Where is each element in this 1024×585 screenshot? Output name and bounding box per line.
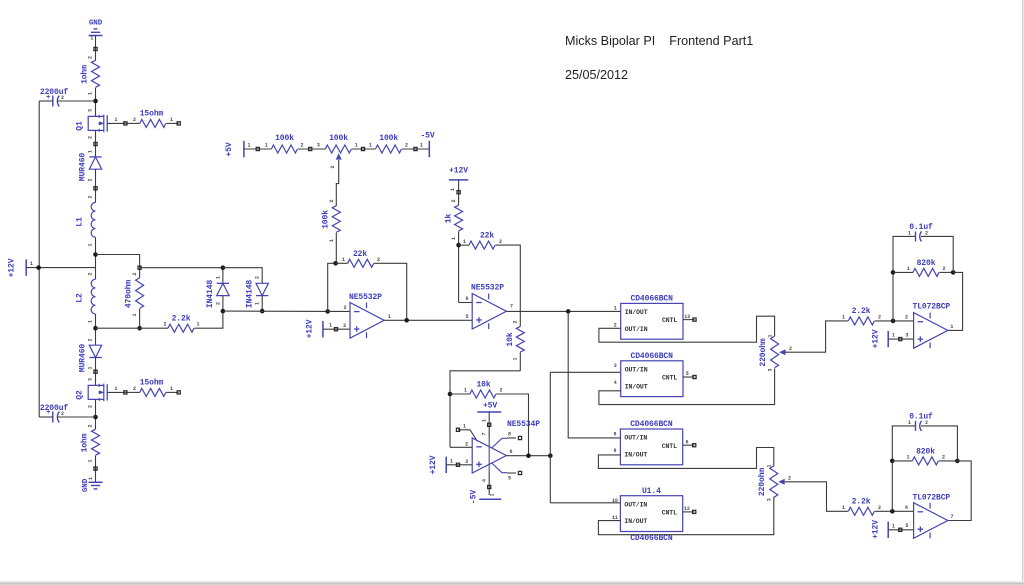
inductor L1 bbox=[91, 202, 95, 237]
wire bus to switch3 pin9 bbox=[568, 311, 620, 438]
ground GND top bbox=[89, 29, 103, 36]
svg-text:1: 1 bbox=[30, 261, 33, 267]
wire +12V to rail and L node bbox=[26, 267, 95, 269]
svg-text:2: 2 bbox=[88, 195, 94, 198]
svg-text:2: 2 bbox=[329, 199, 335, 202]
svg-text:1: 1 bbox=[767, 464, 773, 467]
svg-text:2: 2 bbox=[451, 199, 457, 202]
svg-text:22k: 22k bbox=[353, 250, 367, 259]
diode MUR460 (bottom) bbox=[89, 345, 101, 357]
svg-text:1: 1 bbox=[329, 239, 335, 242]
svg-text:Micks Bipolar PI Frontend P: Micks Bipolar PI Frontend Part1 bbox=[565, 34, 753, 48]
wire MUR460-2 to Q2 bbox=[95, 358, 97, 386]
junction 820k right bbox=[951, 270, 956, 275]
resistor 22k (opamp1 feedback) bbox=[348, 259, 374, 267]
svg-text:1: 1 bbox=[463, 239, 466, 245]
svg-text:2: 2 bbox=[133, 386, 136, 392]
svg-text:2: 2 bbox=[377, 257, 380, 263]
svg-text:2: 2 bbox=[905, 315, 908, 321]
svg-text:NE5534P: NE5534P bbox=[507, 420, 540, 429]
svg-text:1: 1 bbox=[215, 276, 221, 279]
svg-text:5: 5 bbox=[466, 314, 469, 320]
svg-text:CNTL: CNTL bbox=[662, 317, 677, 324]
svg-text:3: 3 bbox=[88, 109, 94, 112]
svg-text:5: 5 bbox=[905, 523, 908, 529]
wire feedback left vertical upper bbox=[893, 236, 916, 321]
svg-text:25/05/2012: 25/05/2012 bbox=[565, 68, 628, 82]
svg-text:-5V: -5V bbox=[470, 490, 479, 504]
svg-text:12: 12 bbox=[684, 506, 690, 512]
svg-text:7: 7 bbox=[510, 304, 513, 310]
svg-text:CNTL: CNTL bbox=[662, 375, 677, 382]
svg-text:7: 7 bbox=[951, 514, 954, 520]
wire IN4148-1 bottom lead bbox=[222, 296, 224, 312]
+12V supply (opamp2 1k) bbox=[449, 180, 468, 184]
wire 100k to 22k node bbox=[335, 233, 337, 264]
svg-text:2.2k: 2.2k bbox=[852, 307, 871, 316]
wire 2.2k to diode node bbox=[194, 311, 223, 328]
wire node to 470ohm top bbox=[96, 255, 140, 268]
svg-text:1: 1 bbox=[170, 386, 173, 392]
junction diode1 bottom bbox=[221, 309, 226, 314]
svg-text:5: 5 bbox=[686, 371, 689, 377]
svg-text:1: 1 bbox=[132, 313, 138, 316]
wire 10k-h right to output bbox=[496, 394, 528, 456]
svg-text:GND: GND bbox=[89, 19, 103, 27]
svg-text:4: 4 bbox=[482, 479, 488, 482]
svg-text:3: 3 bbox=[767, 368, 773, 371]
svg-text:6: 6 bbox=[685, 439, 688, 445]
resistor 100k (top right) bbox=[376, 145, 402, 153]
resistor 1ohm (bottom) bbox=[92, 429, 100, 455]
svg-text:CD4066BCN: CD4066BCN bbox=[631, 352, 674, 361]
svg-text:1: 1 bbox=[88, 320, 94, 323]
op-amp TL072BCP (upper) bbox=[914, 313, 948, 349]
svg-text:TL072BCP: TL072BCP bbox=[913, 494, 951, 503]
svg-text:6: 6 bbox=[510, 449, 513, 455]
analog switch U1.4 CD4066BCN bbox=[612, 487, 696, 543]
svg-text:+12V: +12V bbox=[872, 329, 881, 348]
wire opamp2 output to switch1 bbox=[506, 310, 620, 312]
wire switch2 in to pot1 bottom bbox=[599, 368, 775, 404]
svg-text:IN4148: IN4148 bbox=[245, 280, 254, 309]
svg-text:1: 1 bbox=[265, 143, 268, 149]
svg-text:2: 2 bbox=[330, 165, 336, 168]
wire to IN4148-2 top bbox=[223, 268, 262, 284]
wire feedback to output bbox=[948, 272, 963, 330]
+5V supply (top row) bbox=[243, 141, 245, 157]
pad on GND wire bbox=[94, 47, 97, 50]
wire L2 to lower node bbox=[95, 314, 97, 337]
svg-text:3: 3 bbox=[614, 363, 617, 369]
svg-text:OUT/IN: OUT/IN bbox=[625, 367, 648, 374]
wire 820k right lead bbox=[939, 271, 953, 273]
resistor 10k (vertical) bbox=[516, 326, 524, 352]
diode MUR460 (top) bbox=[89, 156, 101, 158]
pad Q1 source bbox=[94, 142, 97, 145]
wire cap1 right lead bbox=[58, 100, 96, 102]
pad top row 4 bbox=[414, 147, 417, 150]
svg-text:3: 3 bbox=[317, 143, 320, 149]
transistor Q2 MOSFET bbox=[88, 384, 107, 402]
svg-text:1: 1 bbox=[197, 322, 200, 328]
svg-text:2200uf: 2200uf bbox=[40, 404, 69, 413]
wire 100k-3 to -5V bbox=[402, 148, 429, 150]
op-amp NE5532P (second) bbox=[472, 293, 506, 329]
junction 10k-horizontal left bbox=[448, 392, 453, 397]
svg-text:3: 3 bbox=[88, 378, 94, 381]
wire +12V to TL072-2 plus bbox=[888, 529, 913, 531]
wire 820k left lead bbox=[893, 271, 913, 273]
wire switch1 out to pot1 top bbox=[599, 316, 775, 342]
svg-text:470ohm: 470ohm bbox=[125, 280, 134, 309]
junction 5534 out / 10k bbox=[526, 453, 531, 458]
svg-text:0.1uf: 0.1uf bbox=[909, 413, 933, 422]
svg-text:1: 1 bbox=[90, 36, 93, 42]
wire 820k-2 left lead bbox=[892, 460, 912, 462]
svg-text:1: 1 bbox=[88, 92, 94, 95]
wire pot wiper down bbox=[336, 160, 338, 206]
svg-text:+5V: +5V bbox=[225, 142, 234, 156]
wire to opamp2 plus input bbox=[463, 319, 473, 321]
wire 2.2k to TL072 minus bbox=[875, 320, 914, 322]
svg-text:L1: L1 bbox=[76, 217, 85, 227]
svg-text:IN/OUT: IN/OUT bbox=[624, 518, 647, 525]
svg-text:IN/OUT: IN/OUT bbox=[624, 452, 647, 459]
svg-text:1: 1 bbox=[355, 143, 358, 149]
svg-text:2: 2 bbox=[301, 143, 304, 149]
wire 2.2k to TL072-2 minus bbox=[875, 510, 914, 512]
junction 1k/22k bbox=[456, 243, 461, 248]
wire 22k right to output bbox=[374, 263, 407, 320]
svg-text:6: 6 bbox=[905, 505, 908, 511]
wire 10k to NE5534 minus bbox=[450, 371, 520, 448]
svg-text:2: 2 bbox=[788, 475, 791, 481]
potentiometer 220ohm (upper) bbox=[771, 336, 779, 368]
pad top row 1 bbox=[256, 147, 259, 150]
svg-text:2: 2 bbox=[61, 411, 64, 417]
window right border bbox=[1022, 0, 1024, 582]
svg-text:Q2: Q2 bbox=[76, 390, 85, 400]
wire +12V net to diodes bbox=[140, 267, 223, 269]
pot2 wiper arrow bbox=[778, 479, 784, 485]
svg-text:1: 1 bbox=[513, 357, 519, 360]
svg-text:2200uf: 2200uf bbox=[40, 88, 69, 97]
junction 470ohm bottom bbox=[137, 326, 142, 331]
wire +5V to 100k-1 bbox=[244, 148, 272, 150]
+12V bar TL072 upper bbox=[887, 331, 889, 347]
svg-text:2: 2 bbox=[133, 117, 136, 123]
svg-text:9: 9 bbox=[613, 431, 616, 437]
svg-text:IN/OUT: IN/OUT bbox=[625, 383, 648, 390]
wire pin4 to -5V bbox=[488, 473, 490, 495]
wire L1 to L2 through node bbox=[95, 237, 97, 279]
svg-text:820k: 820k bbox=[916, 447, 935, 456]
svg-text:2: 2 bbox=[344, 305, 347, 311]
wire +12V to 1k bbox=[458, 184, 460, 205]
svg-text:3: 3 bbox=[343, 323, 346, 329]
svg-text:7: 7 bbox=[482, 432, 488, 435]
wire 1ohm to GND bottom bbox=[95, 456, 97, 483]
svg-text:CNTL: CNTL bbox=[662, 443, 677, 450]
svg-text:220ohm: 220ohm bbox=[758, 468, 767, 497]
analog switch U1.2 CD4066BCN bbox=[614, 352, 696, 397]
wire IN4148-2 bottom lead bbox=[261, 296, 263, 312]
svg-text:+12V: +12V bbox=[8, 258, 17, 277]
wire cap to 820k right bbox=[921, 236, 953, 272]
svg-text:2: 2 bbox=[789, 346, 792, 352]
svg-text:1: 1 bbox=[88, 366, 94, 369]
wire +5V to pin7 bbox=[488, 416, 490, 438]
wire node to 2.2k bbox=[96, 327, 169, 329]
pad NE5534 pin3 bbox=[456, 463, 459, 466]
wire Q1 source to MUR460 bbox=[95, 130, 97, 157]
svg-text:2: 2 bbox=[942, 455, 945, 461]
svg-text:1: 1 bbox=[248, 143, 251, 149]
resistor 15ohm (bottom) bbox=[140, 388, 166, 396]
wire to 5534 minus bbox=[450, 446, 472, 448]
svg-text:2: 2 bbox=[88, 405, 94, 408]
svg-text:2: 2 bbox=[614, 323, 617, 329]
svg-text:NE5532P: NE5532P bbox=[471, 284, 504, 293]
svg-text:+12V: +12V bbox=[429, 455, 438, 474]
svg-text:1: 1 bbox=[842, 315, 845, 321]
diode IN4148 (left) bbox=[217, 282, 229, 284]
resistor 2.2k (lower right) bbox=[848, 507, 874, 515]
junction diode1 top bbox=[221, 265, 226, 270]
svg-text:2: 2 bbox=[88, 56, 94, 59]
wire 470ohm top lead bbox=[139, 268, 141, 278]
wire 22k left lead bbox=[336, 262, 348, 264]
pad on GND2 wire bbox=[94, 467, 97, 470]
svg-text:2: 2 bbox=[88, 338, 94, 341]
pad MUR460/L1 bbox=[94, 187, 97, 190]
wire diode net to opamp1 bbox=[223, 310, 328, 312]
junction 820k-2 left bbox=[890, 459, 895, 464]
+12V supply (opamp1) bbox=[322, 321, 324, 337]
svg-text:1: 1 bbox=[88, 477, 94, 480]
svg-text:1: 1 bbox=[170, 117, 173, 123]
svg-text:1: 1 bbox=[88, 459, 94, 462]
svg-text:1: 1 bbox=[614, 306, 617, 312]
svg-text:NE5532P: NE5532P bbox=[349, 293, 382, 302]
svg-text:4: 4 bbox=[614, 380, 617, 386]
svg-text:2: 2 bbox=[61, 95, 64, 101]
svg-text:2: 2 bbox=[215, 302, 221, 305]
resistor 100k (vertical) bbox=[332, 206, 340, 233]
resistor 470ohm bbox=[136, 278, 144, 309]
svg-text:2: 2 bbox=[499, 239, 502, 245]
svg-text:1: 1 bbox=[369, 143, 372, 149]
junction L1/L2 node bbox=[93, 252, 98, 257]
svg-text:2: 2 bbox=[500, 388, 503, 394]
wire switch3 in to pot2 top bbox=[598, 448, 773, 469]
resistor 2.2k (left) bbox=[168, 324, 194, 332]
svg-text:+5V: +5V bbox=[483, 402, 497, 411]
pad MUR460-2/Q2 bbox=[94, 370, 97, 373]
pad NE5534 pin4 bbox=[488, 485, 491, 488]
wire to 15ohm bottom bbox=[125, 391, 139, 393]
window bottom border bbox=[0, 581, 1024, 585]
svg-text:1: 1 bbox=[907, 266, 910, 272]
svg-text:1: 1 bbox=[950, 324, 953, 330]
wire pot2 wiper to 2.2k lower bbox=[785, 482, 848, 512]
wire pot1 wiper to 2.2k bbox=[786, 321, 849, 352]
wire Q2 gate lead bbox=[107, 391, 125, 393]
wire cap2 left lead bbox=[39, 416, 53, 418]
svg-text:IN/OUT: IN/OUT bbox=[625, 309, 648, 316]
svg-text:100k: 100k bbox=[379, 134, 398, 143]
svg-text:1: 1 bbox=[420, 143, 423, 149]
svg-text:1: 1 bbox=[892, 523, 895, 529]
wire feedback2 to output bbox=[948, 461, 971, 521]
svg-text:10: 10 bbox=[612, 498, 618, 504]
svg-text:2: 2 bbox=[878, 505, 881, 511]
svg-text:1: 1 bbox=[908, 420, 911, 426]
svg-text:CD4066BCN: CD4066BCN bbox=[630, 534, 673, 543]
pot1 wiper arrow bbox=[779, 349, 785, 355]
pad top row 3 bbox=[361, 147, 364, 150]
junction +12V rail bbox=[36, 265, 41, 270]
svg-text:1: 1 bbox=[388, 314, 391, 320]
resistor 1ohm (top) bbox=[92, 60, 100, 87]
-5V supply (NE5534 pin4) bbox=[479, 495, 501, 499]
junction diode2 bottom bbox=[260, 309, 265, 314]
junction 5534 out / bus bbox=[548, 453, 553, 458]
wire cap1 left lead bbox=[39, 100, 53, 102]
svg-text:15ohm: 15ohm bbox=[140, 110, 164, 119]
svg-text:100k: 100k bbox=[329, 134, 348, 143]
pad opamp1 plus bbox=[334, 328, 337, 331]
wire +12V to 5534 plus bbox=[446, 464, 472, 466]
wire 1k to 22k node and opamp2 minus bbox=[458, 231, 460, 302]
svg-text:3: 3 bbox=[767, 498, 773, 501]
svg-text:220ohm: 220ohm bbox=[759, 338, 768, 367]
svg-text:1: 1 bbox=[892, 333, 895, 339]
wire bus to U1.4 pin10 bbox=[550, 502, 620, 504]
svg-text:2: 2 bbox=[88, 136, 94, 139]
junction 820k left bbox=[891, 270, 896, 275]
svg-text:1: 1 bbox=[767, 334, 773, 337]
pad NE5534 pin7 bbox=[488, 423, 491, 426]
wire to opamp1 minus input bbox=[328, 310, 350, 312]
wire +12V to TL072 plus bbox=[888, 338, 913, 340]
wire 15ohm-2 to pad bbox=[166, 391, 179, 393]
wire 820k-2 right lead bbox=[939, 460, 958, 462]
pad Q1 gate bbox=[124, 122, 127, 125]
pad Q2 gate bbox=[124, 391, 127, 394]
svg-text:CNTL: CNTL bbox=[662, 510, 677, 517]
svg-text:2.2k: 2.2k bbox=[852, 498, 871, 507]
svg-text:1: 1 bbox=[342, 257, 345, 263]
wire U1.4 in to pot2 bottom bbox=[598, 497, 773, 535]
pad NE5534 pin8 bbox=[518, 436, 521, 439]
resistor 820k (lower) bbox=[912, 457, 938, 465]
svg-text:+12V: +12V bbox=[306, 319, 315, 338]
junction TL072-2 inverting node bbox=[890, 509, 895, 514]
svg-text:TL072BCP: TL072BCP bbox=[913, 302, 951, 311]
wire bus to switch2 pin3 bbox=[550, 371, 620, 373]
capacitor 2200uf (bottom) plates bbox=[53, 412, 60, 423]
svg-text:1: 1 bbox=[450, 458, 453, 464]
wire 22k-2 left lead bbox=[459, 244, 469, 246]
svg-text:22k: 22k bbox=[480, 232, 494, 241]
diode IN4148 (right) bbox=[256, 283, 268, 295]
svg-text:100k: 100k bbox=[322, 210, 331, 229]
svg-text:1: 1 bbox=[255, 302, 261, 305]
svg-text:2: 2 bbox=[925, 231, 928, 237]
svg-text:5: 5 bbox=[508, 476, 511, 482]
wire to 15ohm top bbox=[125, 122, 139, 124]
svg-text:1: 1 bbox=[115, 117, 118, 123]
resistor 1k bbox=[455, 205, 463, 231]
svg-text:2: 2 bbox=[943, 266, 946, 272]
junction opamp1 inverting node bbox=[325, 309, 330, 314]
analog switch U1.3 CD4066BCN bbox=[613, 420, 695, 465]
svg-text:1: 1 bbox=[88, 243, 94, 246]
wire 100k-1 to pot bbox=[298, 148, 326, 150]
capacitor 0.1uf (lower) bbox=[916, 421, 922, 431]
wire cap2 to 820k right bbox=[921, 426, 957, 461]
resistor 820k (upper) bbox=[913, 268, 939, 276]
pad 15ohm bottom end bbox=[177, 391, 180, 394]
svg-text:10k: 10k bbox=[506, 332, 515, 346]
svg-text:1: 1 bbox=[329, 323, 332, 329]
pad TL072-2 plus bbox=[899, 528, 902, 531]
NE5534 pin1 balance lead bbox=[458, 430, 478, 442]
junction TL072-1 inverting node bbox=[891, 319, 896, 324]
svg-text:1: 1 bbox=[908, 231, 911, 237]
svg-text:L2: L2 bbox=[76, 293, 85, 303]
pad 15ohm top end bbox=[177, 122, 180, 125]
resistor 2.2k (upper right) bbox=[848, 317, 874, 325]
svg-text:-5V: -5V bbox=[420, 132, 434, 141]
svg-text:2: 2 bbox=[88, 424, 94, 427]
wire cap2 right lead bbox=[58, 416, 96, 418]
svg-text:2: 2 bbox=[164, 322, 167, 328]
svg-text:2: 2 bbox=[88, 178, 94, 181]
resistor 10k (horizontal) bbox=[470, 390, 496, 398]
svg-text:1: 1 bbox=[464, 388, 467, 394]
pad top row 2 bbox=[309, 147, 312, 150]
inductor L2 bbox=[91, 279, 95, 314]
pad 470ohm top bbox=[138, 266, 141, 269]
capacitor 0.1uf (upper) bbox=[916, 231, 922, 241]
+12V bar NE5534 bbox=[445, 457, 447, 473]
wire left rail vertical bbox=[38, 101, 40, 417]
svg-text:U1.4: U1.4 bbox=[642, 487, 661, 496]
wire 22k-2 right to output crossing bbox=[495, 245, 520, 326]
junction cap2/Q2 bbox=[93, 415, 98, 420]
svg-text:CD4066BCN: CD4066BCN bbox=[631, 295, 674, 304]
svg-text:1k: 1k bbox=[444, 214, 453, 224]
svg-text:13: 13 bbox=[684, 314, 690, 320]
svg-text:OUT/IN: OUT/IN bbox=[624, 501, 647, 508]
potentiometer 220ohm (lower) bbox=[770, 466, 778, 498]
wire feedback left vertical lower bbox=[892, 426, 915, 511]
svg-text:2: 2 bbox=[925, 420, 928, 426]
svg-text:2: 2 bbox=[405, 143, 408, 149]
svg-text:0.1uf: 0.1uf bbox=[909, 223, 933, 232]
op-amp NE5534P bbox=[472, 438, 516, 473]
svg-text:8: 8 bbox=[508, 432, 511, 438]
svg-text:+12V: +12V bbox=[449, 167, 468, 176]
svg-text:8: 8 bbox=[613, 448, 616, 454]
wire NE5534 output bbox=[506, 455, 550, 457]
svg-text:2: 2 bbox=[878, 315, 881, 321]
resistor 100k (top left) bbox=[271, 145, 297, 153]
svg-text:1: 1 bbox=[88, 150, 94, 153]
